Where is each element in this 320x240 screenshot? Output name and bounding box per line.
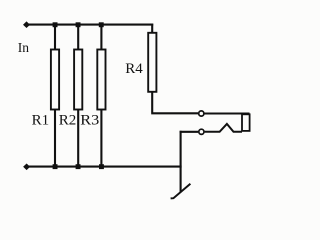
resistor R4 <box>148 33 156 92</box>
resistor R1 <box>51 50 59 110</box>
svg-text:R3: R3 <box>80 113 99 129</box>
wire R2 bottom lead <box>77 110 79 168</box>
junction bottom of R2 <box>76 164 81 169</box>
wire R2 top lead <box>77 25 79 50</box>
terminal input top (diamond) <box>24 22 30 28</box>
jack J1 tip terminal (open circle) <box>199 111 204 116</box>
svg-text:R1: R1 <box>32 113 50 129</box>
wire sleeve terminal to corner <box>180 131 199 133</box>
svg-text:In: In <box>18 40 29 55</box>
jack J1 body (plug rectangle) <box>242 114 250 131</box>
terminal input bottom (diamond) <box>24 164 30 170</box>
wire R4 bottom lead to elbow <box>151 92 198 114</box>
resistor R2 <box>74 50 82 110</box>
wire R3 bottom lead <box>100 110 102 168</box>
wire bottom rail <box>29 166 182 168</box>
junction bottom of R1 <box>53 164 58 169</box>
svg-text:R2: R2 <box>59 113 77 129</box>
jack J1 sleeve terminal (open circle) <box>199 129 204 134</box>
junction top of R1 <box>53 22 58 27</box>
junction top of R2 <box>76 22 81 27</box>
wire R1 bottom lead <box>54 110 56 168</box>
wire R3 top lead <box>100 25 102 50</box>
wire switch drop <box>180 131 182 192</box>
wire R4 top lead <box>151 24 153 33</box>
wire top rail <box>29 24 154 26</box>
resistor R3 <box>97 50 105 110</box>
svg-text:R4: R4 <box>125 61 143 77</box>
junction top of R3 <box>99 22 104 27</box>
switch blade (jack open contact) <box>171 184 191 199</box>
wire tip terminal to jack body <box>205 113 250 115</box>
wire sleeve contact (bent spring) to jack body <box>205 124 242 132</box>
junction bottom of R3 <box>99 164 104 169</box>
wire R1 top lead <box>54 25 56 50</box>
